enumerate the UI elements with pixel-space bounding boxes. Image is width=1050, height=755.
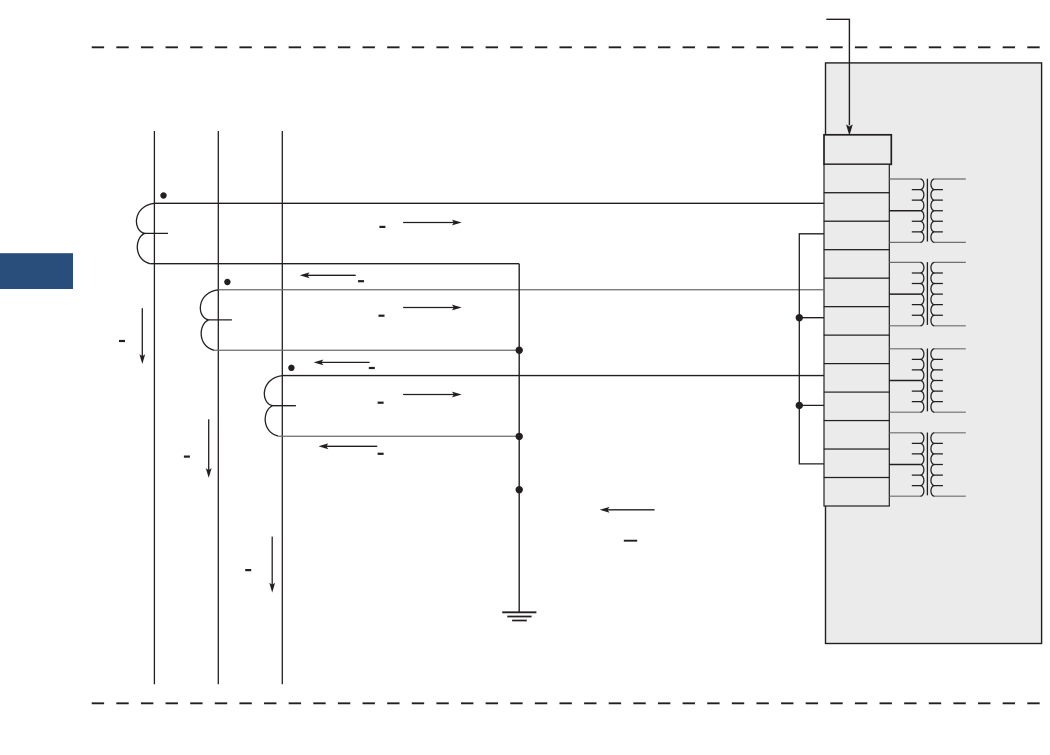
terminal block 11 bbox=[824, 449, 889, 477]
current arrow IB toward relay bbox=[403, 307, 455, 309]
phase B bus line bbox=[217, 131, 219, 684]
label IB bbox=[379, 315, 385, 317]
junction node return bus upper bbox=[796, 314, 803, 321]
CT B center tap tick bbox=[209, 319, 232, 321]
wire CT A secondary top to terminal 2 bbox=[154, 202, 824, 204]
transformer T1 secondary winding ticks bbox=[934, 190, 943, 232]
label phase B current bbox=[184, 456, 190, 458]
transformer T3 secondary lead top bbox=[934, 348, 965, 350]
transformer T3 core bbox=[926, 349, 928, 412]
transformer T2 core bbox=[926, 262, 928, 325]
terminal block 8 bbox=[824, 364, 889, 392]
dashed boundary line bottom bbox=[92, 702, 1040, 704]
blue sidebar tab bbox=[0, 253, 73, 289]
current arrow IC toward relay bbox=[403, 394, 455, 396]
transformer T3 secondary winding bbox=[931, 349, 935, 412]
junction node return bus lower bbox=[796, 402, 803, 409]
transformer T2 primary lead bottom bbox=[889, 325, 920, 327]
current arrow IA toward relay bbox=[403, 222, 455, 224]
transformer T1 secondary lead bottom bbox=[934, 241, 965, 243]
CT B polarity dot bbox=[224, 279, 230, 285]
CT C polarity dot bbox=[288, 365, 294, 371]
relay return bus with stubs to terminals 3,6,9,11 bbox=[799, 234, 824, 464]
CT C center tap tick bbox=[273, 405, 296, 407]
transformer T4 primary winding bbox=[920, 433, 924, 496]
transformer T3 primary winding ticks bbox=[912, 359, 921, 401]
terminal block 2 bbox=[824, 193, 889, 221]
CT C primary winding arcs bbox=[264, 376, 282, 436]
junction node CT C return bbox=[516, 433, 523, 440]
transformer T4 secondary winding ticks bbox=[934, 443, 943, 485]
CT A polarity dot bbox=[160, 192, 166, 198]
current arrow IA return bbox=[307, 274, 356, 276]
terminal block 9 bbox=[824, 392, 889, 420]
transformer T1 primary winding bbox=[920, 179, 924, 242]
transformer T3 secondary winding ticks bbox=[934, 359, 943, 401]
ground symbol bbox=[502, 612, 536, 620]
arrow into relay terminal 0 bbox=[826, 19, 849, 125]
junction node residual current bbox=[516, 486, 523, 493]
transformer T2 primary lead mid tap bbox=[889, 293, 920, 295]
residual current arrow toward neutral bbox=[607, 509, 655, 511]
terminal block 7 bbox=[824, 335, 889, 363]
transformer T1 primary lead top bbox=[889, 178, 920, 180]
transformer T1 primary lead mid tap bbox=[889, 210, 920, 212]
current arrow IC return bbox=[326, 445, 378, 447]
wire CT B secondary top to terminal 5 bbox=[218, 289, 824, 291]
terminal block 1 bbox=[824, 164, 889, 192]
wire CT C secondary top to terminal 8 bbox=[282, 375, 824, 377]
transformer T2 secondary winding ticks bbox=[934, 273, 943, 315]
dashed boundary line top bbox=[92, 46, 1040, 48]
transformer T4 primary lead top bbox=[889, 432, 920, 434]
transformer T2 primary lead top bbox=[889, 261, 920, 263]
label phase A current bbox=[119, 340, 125, 342]
transformer T2 secondary lead top bbox=[934, 261, 965, 263]
relay enclosure box bbox=[826, 63, 1042, 644]
transformer T4 core bbox=[926, 433, 928, 496]
label ic return bbox=[378, 453, 384, 455]
transformer T1 core bbox=[926, 179, 928, 242]
phase A bus line bbox=[153, 131, 155, 684]
transformer T2 primary winding bbox=[920, 262, 924, 325]
transformer T3 primary winding bbox=[920, 349, 924, 412]
transformer T2 secondary winding bbox=[931, 262, 935, 325]
transformer T3 secondary lead bottom bbox=[934, 411, 965, 413]
terminal block 5 bbox=[824, 278, 889, 306]
wire CT A secondary bottom to neutral node bbox=[150, 263, 519, 265]
arrowhead down bbox=[846, 125, 852, 135]
transformer T4 secondary lead bottom bbox=[934, 495, 965, 497]
transformer T3 primary lead bottom bbox=[889, 411, 920, 413]
label IA bbox=[379, 226, 385, 228]
transformer T3 primary lead top bbox=[889, 348, 920, 350]
terminal block 10 bbox=[824, 421, 889, 449]
transformer T4 primary lead bottom bbox=[889, 495, 920, 497]
transformer T1 primary winding ticks bbox=[912, 190, 921, 232]
transformer T4 secondary winding bbox=[931, 433, 935, 496]
transformer T2 primary winding ticks bbox=[912, 273, 921, 315]
CT B primary winding arcs bbox=[200, 290, 218, 350]
wire CT C secondary bottom to neutral node bbox=[278, 435, 519, 437]
label residual current 3I0 bbox=[624, 540, 637, 542]
wire CT B secondary bottom to neutral node bbox=[214, 349, 519, 351]
terminal block 12 bbox=[824, 478, 889, 506]
transformer T1 primary lead bottom bbox=[889, 241, 920, 243]
transformer T3 primary lead mid tap bbox=[889, 380, 920, 382]
transformer T2 secondary lead bottom bbox=[934, 325, 965, 327]
label ia return bbox=[358, 280, 364, 282]
label IC bbox=[378, 402, 384, 404]
transformer T1 secondary winding bbox=[931, 179, 935, 242]
CT A primary winding arcs bbox=[136, 203, 154, 263]
neutral conductor down to ground bbox=[518, 264, 520, 613]
load current arrow phase C bbox=[271, 537, 273, 586]
phase C bus line bbox=[281, 131, 283, 684]
terminal block 6 bbox=[824, 307, 889, 335]
load current arrow phase A bbox=[141, 308, 143, 357]
terminal block 0 (wide top terminal) bbox=[824, 135, 891, 165]
transformer T1 secondary lead top bbox=[934, 178, 965, 180]
transformer T4 primary lead mid tap bbox=[889, 464, 920, 466]
label phase C current bbox=[245, 569, 251, 571]
terminal block 3 bbox=[824, 221, 889, 249]
junction node CT B return bbox=[516, 347, 523, 354]
current arrow IB return bbox=[321, 361, 370, 363]
CT A center tap tick bbox=[145, 232, 168, 234]
transformer T4 secondary lead top bbox=[934, 432, 965, 434]
transformer T4 primary winding ticks bbox=[912, 443, 921, 485]
label ib return bbox=[369, 367, 375, 369]
terminal block 4 bbox=[824, 250, 889, 278]
load current arrow phase B bbox=[208, 419, 210, 471]
